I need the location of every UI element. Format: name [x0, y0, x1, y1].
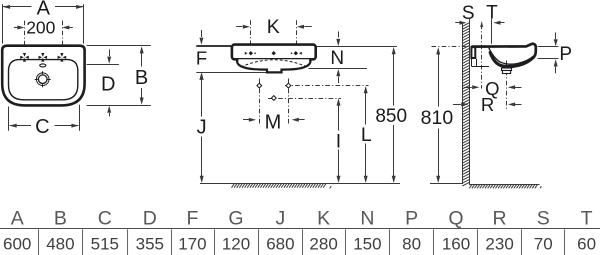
svg-text:T: T	[486, 2, 498, 23]
dimension B label	[135, 67, 148, 89]
svg-text:J: J	[276, 207, 286, 229]
svg-text:850: 850	[375, 106, 407, 127]
dimension 810 reference line	[432, 46, 470, 48]
svg-text:480: 480	[46, 235, 74, 254]
svg-text:170: 170	[178, 235, 206, 254]
svg-text:N: N	[330, 48, 344, 69]
svg-text:T: T	[581, 207, 593, 229]
svg-text:355: 355	[136, 235, 164, 254]
washbasin side back outline	[472, 59, 490, 67]
tap hole centerline right	[62, 21, 64, 62]
dimension J line with arrows	[200, 73, 204, 183]
tap hole centerline middle	[42, 48, 44, 63]
floor hatching middle	[232, 184, 332, 189]
svg-text:B: B	[135, 67, 148, 89]
mounting hole centerline vertical right	[288, 79, 290, 126]
svg-text:680: 680	[266, 235, 294, 254]
svg-text:S: S	[462, 3, 475, 24]
dimension F label	[196, 48, 207, 69]
svg-text:F: F	[186, 207, 198, 229]
washbasin side bowl inner	[489, 48, 533, 64]
svg-text:200: 200	[26, 18, 55, 38]
dimension N arrows	[336, 32, 340, 84]
mounting hole lower middle	[271, 96, 276, 101]
mounting hole upper right	[286, 83, 291, 88]
rim tap hole right	[291, 51, 302, 55]
svg-text:150: 150	[353, 235, 381, 254]
table column dividers	[39, 229, 565, 255]
svg-text:160: 160	[442, 235, 470, 254]
mounting hole centerline horizontal lower	[268, 98, 341, 100]
mounting hole centerline vertical left	[259, 79, 261, 126]
dimension 200 arrows	[14, 26, 73, 30]
dimension 850 label	[375, 106, 407, 127]
dimension I label	[336, 130, 341, 152]
rim tap hole left	[245, 51, 256, 55]
basin top reference line	[196, 46, 397, 48]
wall section edges	[463, 19, 470, 184]
svg-text:K: K	[317, 207, 330, 229]
svg-text:B: B	[54, 207, 67, 229]
washbasin side rim and lip	[471, 44, 536, 58]
svg-text:G: G	[228, 207, 243, 229]
washbasin front rim	[232, 45, 316, 60]
svg-text:R: R	[481, 94, 494, 115]
dimension F bottom line	[196, 72, 266, 74]
svg-text:120: 120	[222, 235, 250, 254]
svg-text:J: J	[197, 117, 207, 139]
mounting hole centerline horizontal upper	[285, 85, 369, 87]
mounting hole upper left	[257, 83, 262, 88]
faucet hole symbol	[35, 71, 51, 87]
svg-text:P: P	[559, 44, 572, 65]
washbasin side bracket	[471, 47, 475, 58]
wall hatching	[462, 23, 469, 186]
dimension Q label	[485, 78, 499, 99]
svg-text:D: D	[143, 207, 157, 229]
dimension Q arrows	[464, 85, 522, 89]
washbasin outer outline top view	[2, 46, 84, 106]
dimension T label	[486, 2, 498, 23]
table value row	[3, 235, 596, 254]
dimension S label	[462, 3, 475, 24]
dimension B line with arrows	[140, 46, 144, 104]
dimension A line with arrows	[3, 5, 83, 9]
dimension C extension lines	[9, 105, 80, 131]
dimension 850 line with arrows	[392, 47, 396, 183]
dimension S arrow	[455, 21, 466, 25]
dimension A label	[37, 0, 51, 20]
dimension P arrows	[554, 33, 558, 74]
floor line right	[430, 184, 540, 185]
svg-text:I: I	[336, 130, 341, 152]
svg-text:L: L	[361, 124, 372, 146]
tap hole cross middle	[39, 53, 48, 62]
svg-text:D: D	[101, 73, 115, 95]
dimension M arrows	[243, 118, 305, 122]
svg-text:810: 810	[421, 107, 454, 129]
svg-text:S: S	[537, 207, 550, 229]
dimension 810 label	[421, 107, 454, 129]
hole centerline tick arrow	[480, 21, 483, 27]
dimension J label	[197, 117, 207, 139]
dimension R arrows	[453, 102, 522, 106]
rim tap hole middle	[272, 51, 276, 55]
dimension C label	[35, 116, 49, 138]
washbasin front apron	[237, 59, 310, 72]
dimension B extension lines	[87, 46, 151, 106]
dimension P label	[559, 44, 572, 65]
dimension L line with arrows	[364, 86, 368, 183]
dimension P extension lines	[538, 47, 559, 59]
dimension L label	[361, 124, 372, 146]
svg-text:C: C	[98, 207, 112, 229]
dimension I line with arrows	[337, 98, 341, 183]
table header rule	[0, 228, 600, 230]
dimension K extension lines	[251, 20, 297, 44]
tap hole cross right	[58, 53, 67, 62]
side drain fitting	[502, 68, 512, 74]
tap hole cross left	[20, 53, 29, 62]
svg-text:N: N	[360, 207, 374, 229]
svg-text:280: 280	[309, 235, 337, 254]
overflow slot	[40, 64, 46, 67]
svg-text:R: R	[493, 207, 507, 229]
svg-text:F: F	[196, 48, 207, 69]
svg-text:P: P	[405, 207, 418, 229]
svg-text:Q: Q	[448, 207, 463, 229]
table header row	[11, 207, 593, 229]
drain centerline side	[506, 61, 508, 111]
svg-text:600: 600	[3, 235, 31, 254]
dimension N bottom line	[309, 68, 367, 70]
svg-text:80: 80	[402, 235, 421, 254]
dimension D label	[101, 73, 115, 95]
dimension K arrows	[236, 25, 312, 29]
dimension D arrows	[107, 49, 111, 116]
washbasin inner bowl outline top view	[9, 60, 78, 100]
dimension 810 line with arrows	[436, 47, 440, 183]
dimension F arrows	[199, 30, 203, 87]
dimension D extension line	[87, 64, 119, 66]
dimension T arrow	[493, 21, 504, 25]
rim edge line side	[491, 19, 493, 44]
svg-text:60: 60	[577, 235, 596, 254]
hole centerline side	[481, 25, 483, 89]
dimension N label	[330, 48, 344, 69]
dimension F top line	[196, 45, 232, 47]
dimension C line with arrows	[10, 124, 79, 128]
svg-text:C: C	[35, 116, 49, 138]
svg-text:A: A	[11, 207, 24, 229]
tap hole centerline left	[24, 21, 26, 62]
svg-text:K: K	[267, 16, 280, 38]
dimension R label	[481, 94, 494, 115]
floor line middle	[200, 183, 400, 185]
dimension M label	[265, 111, 282, 133]
svg-text:M: M	[265, 111, 282, 133]
dimension K label	[267, 16, 280, 38]
floor hatching right	[469, 184, 541, 188]
svg-text:515: 515	[91, 235, 119, 254]
washbasin side bowl outer wall	[490, 53, 533, 67]
dimension A extension lines	[3, 4, 84, 43]
dimension 200 label	[26, 18, 55, 38]
svg-text:230: 230	[485, 235, 513, 254]
hidden bowl dashed arc	[241, 60, 308, 67]
svg-text:70: 70	[534, 235, 553, 254]
